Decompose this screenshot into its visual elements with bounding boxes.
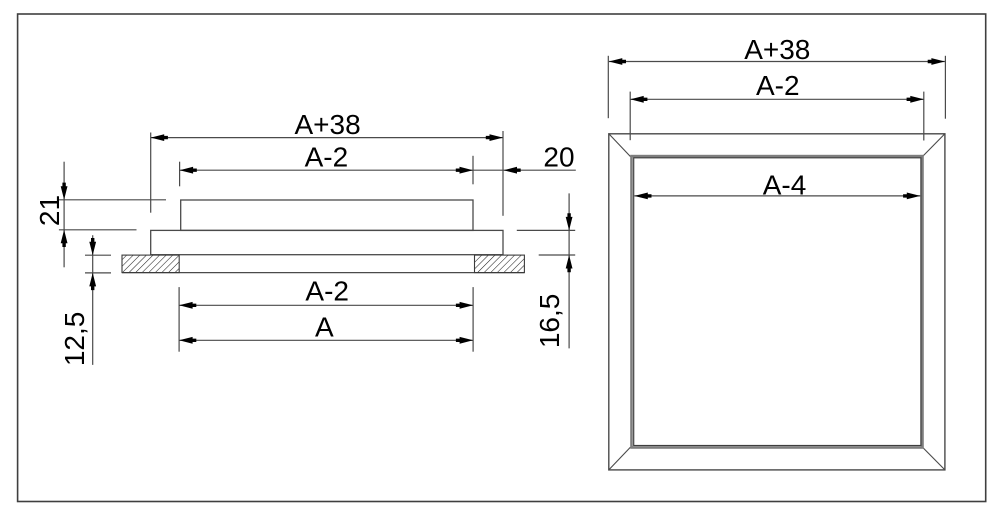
hatched ceiling right — [475, 255, 525, 273]
dimension A+38 (right view) — [608, 56, 945, 119]
ceiling board bottom line — [122, 272, 524, 274]
svg-text:A+38: A+38 — [295, 109, 361, 140]
mitre corner diagonals — [609, 134, 945, 470]
svg-text:20: 20 — [543, 142, 574, 173]
svg-text:A-2: A-2 — [305, 142, 349, 173]
svg-text:12,5: 12,5 — [59, 312, 90, 367]
dimension A-2 bottom (left view) — [179, 287, 473, 352]
svg-text:A-2: A-2 — [305, 276, 349, 307]
dimension A+38 (left view) — [151, 131, 503, 216]
dimension A-4 (right view) — [634, 195, 920, 197]
dimension 21 (left vertical) — [59, 162, 166, 268]
inner frame edge (thick) — [632, 156, 923, 447]
dimension A-2 (right view) — [630, 92, 924, 141]
dimension A-2 top + 20 (left view) — [180, 156, 576, 187]
dimension A bottom (left view) — [179, 339, 473, 341]
svg-text:21: 21 — [34, 195, 65, 226]
svg-text:16,5: 16,5 — [534, 294, 565, 349]
svg-text:A: A — [315, 312, 334, 343]
panel edge (thin inner square) — [634, 158, 921, 446]
panel (door) rectangle — [181, 200, 473, 230]
svg-text:A-2: A-2 — [756, 70, 800, 101]
outer frame square — [609, 134, 945, 470]
hatched ceiling left — [122, 255, 179, 273]
dimension 12,5 (left vertical) — [85, 235, 111, 365]
flange (frame) rectangle — [151, 230, 503, 254]
dimension 16,5 (right vertical) — [517, 193, 575, 348]
svg-text:A+38: A+38 — [744, 34, 810, 65]
svg-text:A-4: A-4 — [763, 169, 807, 200]
